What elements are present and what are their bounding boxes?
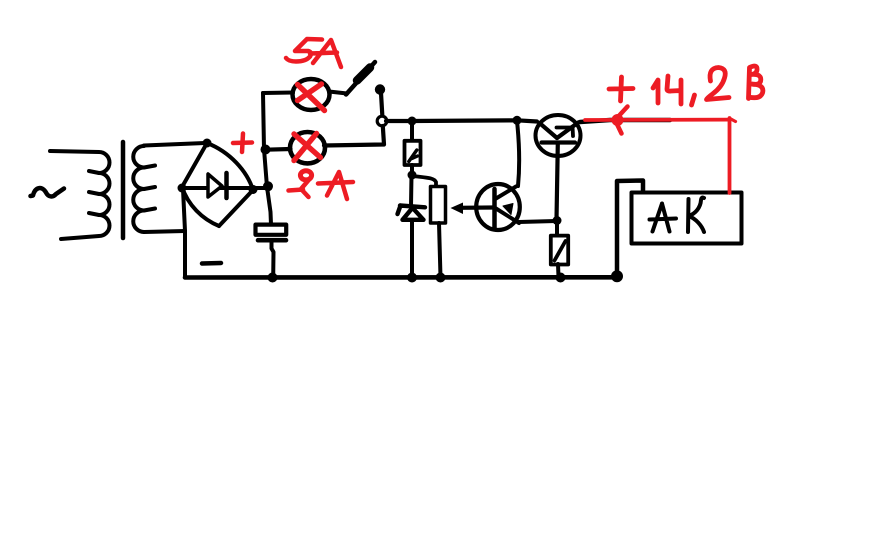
wire plus column (lamps feed down to capacitor) xyxy=(263,93,271,225)
resistor R1 xyxy=(405,124,421,175)
label 2A red xyxy=(289,171,354,199)
minus sign black xyxy=(202,261,221,266)
battery AK box xyxy=(632,193,742,244)
node battery negative rail xyxy=(611,270,623,282)
label 5A red xyxy=(286,39,341,67)
battery label letter K xyxy=(688,198,704,232)
bridge rectifier diamond xyxy=(182,143,253,226)
ring node (open junction) xyxy=(377,116,387,126)
bottom rail wire xyxy=(185,275,617,280)
node capacitor to rail xyxy=(268,273,278,283)
wire node to potentiometer top xyxy=(413,176,436,187)
AC source tilde xyxy=(31,188,65,196)
switch fixed contact node xyxy=(375,84,385,94)
wire zener to rail xyxy=(410,221,414,277)
wire lamp2 left xyxy=(266,147,291,152)
wire node to zener xyxy=(409,175,414,206)
wire VT2 base lead down xyxy=(557,144,558,221)
lamp HL1 5A xyxy=(293,79,330,111)
battery label letter A xyxy=(650,204,677,232)
node bridge top xyxy=(203,139,212,148)
switch SA1 arm xyxy=(346,62,375,95)
transistor VT1 (small, PNP) xyxy=(476,184,520,230)
wire switch contact down to ring node xyxy=(381,93,382,115)
bridge internal diode xyxy=(182,173,270,198)
top rail wire ring to transistor xyxy=(386,120,537,121)
transformer core xyxy=(121,142,126,238)
plus sign red (rectifier output) xyxy=(233,134,252,153)
node bridge left xyxy=(178,184,187,193)
transformer secondary winding xyxy=(133,146,155,232)
wire lamp1 left xyxy=(263,91,293,96)
node top rail VT2 branch xyxy=(513,116,522,125)
lamp HL2 2A xyxy=(290,132,325,163)
node bridge output / plus column xyxy=(263,181,273,191)
wire VT2 emitter black under red xyxy=(580,120,670,122)
zener diode VD2 xyxy=(398,206,426,220)
wire left vertical from bridge to bottom rail xyxy=(183,189,185,277)
wire lamp2 right up to ring node xyxy=(324,126,384,146)
transformer primary winding xyxy=(50,151,110,239)
red output wire xyxy=(585,118,736,193)
red current arrow on wire xyxy=(612,107,628,134)
wire VT1 emitter to node xyxy=(519,221,556,222)
node R2 rail xyxy=(556,273,566,283)
wire lamp1 right to switch xyxy=(329,92,347,94)
potentiometer wiper arrow xyxy=(451,203,494,215)
wire secondary top to bridge xyxy=(144,143,205,146)
wire secondary bottom to left rail xyxy=(144,231,185,232)
capacitor C1 xyxy=(256,225,287,277)
node potentiometer rail xyxy=(436,273,446,283)
label +14,2 V red xyxy=(609,66,763,105)
node top rail R1 xyxy=(408,117,417,126)
wire VT1 collector up to top rail xyxy=(517,121,519,186)
node zener rail xyxy=(407,273,417,283)
potentiometer R3 body xyxy=(431,187,446,224)
node lamp2 left xyxy=(261,145,271,155)
resistor R2 xyxy=(551,222,568,277)
node bridge right xyxy=(249,185,258,194)
wire battery negative hook xyxy=(617,181,643,275)
wire potentiometer bottom to rail xyxy=(439,223,441,277)
transistor VT2 (power) xyxy=(536,115,581,156)
node below R1 xyxy=(408,171,417,180)
node VT2/VT1/R2 xyxy=(553,216,562,225)
